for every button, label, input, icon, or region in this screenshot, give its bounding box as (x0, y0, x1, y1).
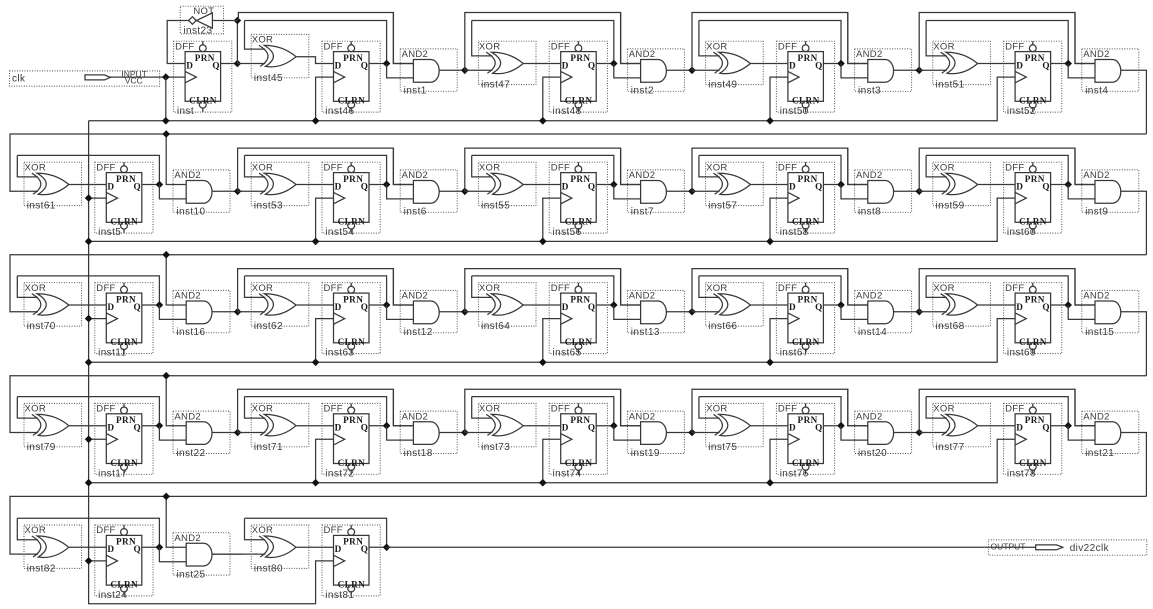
svg-text:inst56: inst56 (553, 227, 582, 238)
junction carry node stage 3 row 1 (688, 67, 696, 75)
svg-text:AND2: AND2 (402, 170, 429, 181)
svg-text:XOR: XOR (706, 283, 728, 294)
svg-text:DFF: DFF (1005, 41, 1024, 52)
wire carry arc inst to AND1 top (238, 13, 413, 64)
junction rail row 2 riser 3 (766, 238, 774, 246)
wire carry junction to XOR lower input stage 2 row 3 (465, 311, 493, 313)
D flip-flop inst58 (776, 162, 834, 238)
svg-text:AND2: AND2 (174, 533, 201, 544)
D flip-flop inst72 (322, 403, 380, 479)
svg-text:DFF: DFF (324, 283, 343, 294)
svg-text:inst66: inst66 (708, 321, 737, 332)
wire feedback arc over inst57 (699, 155, 841, 184)
junction long carry tap row 2 (162, 130, 170, 138)
svg-text:inst46: inst46 (325, 106, 354, 117)
svg-text:inst1: inst1 (404, 86, 427, 97)
AND2 gate inst15 (1082, 290, 1139, 338)
junction Q node inst54 (383, 181, 391, 189)
wire feedback drop to inst70 upper input (17, 276, 38, 298)
AND2 gate inst22 (173, 411, 230, 459)
wire feedback drop to inst68 upper input (926, 276, 947, 298)
junction NOT input node (234, 17, 242, 25)
junction carry node stage 4 row 1 (915, 67, 923, 75)
wire inst4 output to right edge drop (1121, 70, 1147, 134)
wire Q of inst58 to inst8 bottom input (841, 185, 868, 199)
wire Q output of inst54 (369, 184, 387, 186)
svg-text:DFF: DFF (778, 162, 797, 173)
wire Q rise to NOT level (236, 21, 238, 64)
wire carry drop to inst21 top input (1075, 389, 1095, 425)
wire inst25 output to next carry junction (212, 553, 242, 555)
wire Q output of inst50 (823, 63, 841, 65)
svg-text:DFF: DFF (551, 162, 570, 173)
svg-text:XOR: XOR (252, 283, 274, 294)
D flip-flop inst74 (549, 403, 607, 479)
svg-text:DFF: DFF (96, 162, 115, 173)
svg-text:DFF: DFF (175, 41, 194, 52)
wire clock riser stage 2 row 2 (543, 198, 561, 241)
svg-text:XOR: XOR (933, 162, 955, 173)
wire feedback drop to inst62 upper input (245, 276, 266, 298)
svg-text:inst72: inst72 (325, 468, 354, 479)
wire feedback arc over inst62 (245, 276, 387, 305)
wire clock riser stage 1 row 4 (316, 439, 334, 482)
XOR gate inst68 (933, 283, 991, 333)
wire carry junction to XOR lower input stage 4 row 3 (919, 311, 947, 313)
AND2 gate inst4 (1082, 49, 1139, 97)
wire Q output of inst69 (1051, 304, 1069, 306)
D flip-flop inst81 (322, 525, 380, 601)
AND2 gate inst12 (400, 290, 457, 338)
D flip-flop inst56 (549, 162, 607, 238)
D flip-flop inst48 (549, 41, 607, 117)
wire Q of inst72 to inst18 bottom input (387, 426, 414, 440)
svg-text:div22clk: div22clk (1070, 543, 1110, 554)
wire Q of inst63 to inst12 bottom input (387, 305, 414, 319)
wire carry arc over stage 3 row 3 (692, 269, 868, 312)
wire inst59 output to D of inst60 (978, 184, 1016, 186)
wire carry junction to XOR lower input stage 3 row 2 (692, 190, 720, 192)
svg-text:XOR: XOR (25, 162, 47, 173)
junction Q node inst63 (383, 301, 391, 309)
wire feedback drop to inst47 upper input (472, 21, 493, 56)
junction rail row 3 riser 3 (766, 359, 774, 367)
svg-text:inst15: inst15 (1085, 327, 1114, 338)
svg-text:AND2: AND2 (629, 170, 656, 181)
wire Q of inst54 to inst6 bottom input (387, 185, 414, 199)
svg-text:inst25: inst25 (176, 570, 205, 581)
wire inst8 output to next carry junction (894, 190, 924, 192)
wire carry arc over stage 4 row 2 (919, 148, 1095, 191)
junction trunk rail row 3 (85, 359, 93, 367)
wire carry arc over stage 1 row 3 (238, 269, 414, 312)
wire Q output of inst74 (596, 425, 614, 427)
junction rail row 3 riser 1 (312, 359, 320, 367)
wire inst68 output to D of inst69 (978, 304, 1016, 306)
junction carry node stage 3 row 3 (688, 308, 696, 316)
wire carry arc over stage 3 row 4 (692, 389, 868, 432)
svg-text:inst48: inst48 (553, 106, 582, 117)
wire carry junction to XOR lower input stage 1 row 3 (238, 311, 266, 313)
wire carry drop to inst25 top input (166, 496, 186, 547)
XOR gate inst47 (478, 41, 536, 90)
wire inst19 output to next carry junction (666, 432, 696, 434)
wire clock riser stage 2 row 4 (543, 439, 561, 482)
XOR gate inst59 (933, 162, 991, 212)
wire inst49 output to D of inst50 (750, 63, 788, 65)
D flip-flop inst63 (322, 283, 380, 359)
XOR gate inst80 (251, 525, 309, 575)
wire Q output of inst67 (823, 304, 841, 306)
wire carry drop to inst9 top input (1075, 148, 1095, 184)
wire feedback drop to inst49 upper input (699, 21, 720, 56)
svg-text:AND2: AND2 (1083, 170, 1110, 181)
wire feedback drop to inst64 upper input (472, 276, 493, 298)
wire Q output of inst60 (1051, 184, 1069, 186)
svg-text:inst59: inst59 (936, 201, 965, 212)
wire trunk clock branch row 2 (89, 197, 107, 199)
wire carry drop to inst3 top input (848, 13, 868, 64)
svg-text:XOR: XOR (25, 283, 47, 294)
wire carry drop to inst20 top input (848, 389, 868, 425)
wire row 3 carry input from row 2 (10, 255, 1146, 312)
svg-text:inst69: inst69 (1007, 348, 1036, 359)
svg-text:XOR: XOR (706, 404, 728, 415)
junction trunk clock row 5 (85, 557, 93, 565)
svg-text:inst62: inst62 (254, 321, 283, 332)
svg-text:inst63: inst63 (325, 348, 354, 359)
D flip-flop inst76 (776, 403, 834, 479)
wire carry drop to inst18 top input (393, 389, 413, 425)
svg-text:AND2: AND2 (174, 291, 201, 302)
D flip-flop inst (174, 41, 232, 117)
wire clock riser stage 2 row 3 (543, 319, 561, 363)
wire feedback arc over inst64 (472, 276, 614, 305)
svg-text:inst45: inst45 (254, 73, 283, 84)
junction Q node inst69 (1064, 301, 1072, 309)
junction Q node inst48 (610, 60, 618, 68)
wire carry arc over stage 4 row 4 (919, 389, 1095, 432)
junction rail row 2 riser 2 (539, 238, 547, 246)
wire Q output of inst17 (142, 425, 160, 427)
wire feedback drop to inst59 upper input (926, 155, 947, 177)
wire carry drop to inst15 top input (1075, 269, 1095, 305)
svg-text:AND2: AND2 (629, 291, 656, 302)
AND2 gate inst18 (400, 411, 457, 459)
XOR gate inst70 (24, 283, 82, 333)
junction rail row 1 clk tap (162, 117, 170, 125)
svg-text:inst6: inst6 (404, 207, 427, 218)
wire clock riser stage 3 row 1 (770, 77, 788, 121)
svg-text:inst75: inst75 (708, 442, 737, 453)
svg-text:inst3: inst3 (858, 86, 881, 97)
AND2 gate inst10 (173, 170, 230, 218)
svg-text:inst18: inst18 (404, 448, 433, 459)
D flip-flop inst24 (95, 525, 153, 601)
junction Q node inst72 (383, 422, 391, 430)
svg-text:DFF: DFF (324, 41, 343, 52)
wire inst51 output to D of inst52 (978, 63, 1016, 65)
wire Q of inst78 to inst21 bottom input (1068, 426, 1095, 440)
wire inst22 output to next carry junction (212, 432, 242, 434)
AND2 gate inst13 (627, 290, 684, 338)
svg-text:XOR: XOR (252, 162, 274, 173)
svg-text:NOT: NOT (193, 6, 214, 17)
wire Q of inst17 to inst22 bottom input (159, 426, 186, 440)
wire inst73 output to D of inst74 (523, 425, 561, 427)
svg-text:DFF: DFF (1005, 404, 1024, 415)
XOR gate inst73 (478, 403, 536, 452)
wire inst6 output to next carry junction (439, 190, 469, 192)
svg-text:XOR: XOR (25, 404, 47, 415)
wire Q of inst60 to inst9 bottom input (1068, 185, 1095, 199)
wire Q output of inst58 (823, 184, 841, 186)
wire Q of inst65 to inst13 bottom input (614, 305, 641, 319)
wire carry drop to inst16 top input (166, 255, 186, 305)
junction trunk rail row 2 (85, 238, 93, 246)
wire Q output of inst11 (142, 304, 160, 306)
wire inst45 output to D of inst46 (296, 57, 334, 64)
wire carry drop to inst7 top input (621, 148, 641, 184)
svg-text:clk: clk (12, 74, 26, 85)
svg-text:XOR: XOR (706, 162, 728, 173)
wire feedback arc over inst59 (926, 155, 1068, 184)
junction Q node inst5 (156, 181, 164, 189)
svg-text:inst16: inst16 (176, 327, 205, 338)
D flip-flop inst60 (1004, 162, 1062, 238)
svg-text:AND2: AND2 (629, 411, 656, 422)
svg-text:inst2: inst2 (631, 86, 654, 97)
AND2 gate inst3 (855, 49, 912, 97)
XOR gate inst64 (478, 283, 536, 333)
svg-text:inst13: inst13 (631, 327, 660, 338)
svg-text:AND2: AND2 (856, 49, 883, 60)
svg-text:XOR: XOR (252, 35, 274, 46)
wire carry junction to XOR lower input stage 3 row 4 (692, 432, 720, 434)
wire trunk clock branch row 5 (89, 560, 107, 562)
wire clock riser stage 1 row 3 (316, 319, 334, 363)
wire clk drop to clock rail (165, 77, 167, 121)
wire feedback arc over inst77 (926, 397, 1068, 426)
D flip-flop inst78 (1004, 403, 1062, 479)
wire Q of inst52 to inst4 bottom input (1068, 64, 1095, 78)
svg-text:inst51: inst51 (936, 80, 965, 91)
wire inst12 output to next carry junction (439, 311, 469, 313)
wire carry drop to inst12 top input (393, 269, 413, 305)
svg-text:DFF: DFF (551, 404, 570, 415)
svg-text:XOR: XOR (706, 41, 728, 52)
wire feedback drop to inst61 upper input (17, 155, 38, 177)
wire inst20 output to next carry junction (894, 432, 924, 434)
junction carry node stage 2 row 1 (461, 67, 469, 75)
junction Q node inst74 (610, 422, 618, 430)
output pin div22clk (988, 540, 1146, 555)
wire inst57 output to D of inst58 (750, 184, 788, 186)
wire carry junction to XOR lower input stage 1 row 4 (238, 432, 266, 434)
wire feedback arc over inst79 (17, 397, 159, 426)
wire NOT output to D of inst (167, 21, 188, 64)
junction Q node inst65 (610, 301, 618, 309)
D flip-flop inst11 (95, 283, 153, 359)
wire inst82 output to D of inst24 (69, 546, 107, 548)
svg-text:inst5: inst5 (98, 227, 121, 238)
svg-text:AND2: AND2 (174, 411, 201, 422)
AND2 gate inst6 (400, 170, 457, 218)
wire Q of inst76 to inst20 bottom input (841, 426, 868, 440)
svg-text:DFF: DFF (324, 525, 343, 536)
wire feedback drop to inst79 upper input (17, 397, 38, 419)
junction Q node inst46 (383, 60, 391, 68)
svg-text:inst20: inst20 (858, 448, 887, 459)
AND2 gate inst25 (173, 533, 230, 581)
svg-text:inst53: inst53 (254, 201, 283, 212)
junction rail row 1 riser 3 (766, 117, 774, 125)
junction Q node inst78 (1064, 422, 1072, 430)
svg-text:inst60: inst60 (1007, 227, 1036, 238)
wire feedback arc over inst49 (699, 21, 841, 64)
svg-text:inst17: inst17 (98, 468, 127, 479)
wire clock riser stage 1 row 1 (316, 77, 334, 121)
wire inst80 output to D of inst81 (296, 546, 334, 548)
wire Q output of inst5 (142, 184, 160, 186)
wire carry arc over stage 2 row 4 (465, 389, 641, 432)
wire Q output of inst56 (596, 184, 614, 186)
svg-text:inst55: inst55 (481, 201, 510, 212)
wire carry drop to inst19 top input (621, 389, 641, 425)
wire clock riser stage 1 row 2 (316, 198, 334, 241)
wire inst2 output to next carry junction (666, 69, 696, 71)
XOR gate inst49 (706, 41, 764, 90)
svg-text:inst49: inst49 (708, 80, 737, 91)
svg-text:AND2: AND2 (856, 170, 883, 181)
XOR gate inst79 (24, 403, 82, 452)
svg-text:inst65: inst65 (553, 348, 582, 359)
junction Q node inst56 (610, 181, 618, 189)
wire inst70 output to D of inst11 (69, 304, 107, 306)
junction carry node stage 4 row 4 (915, 429, 923, 437)
D flip-flop inst65 (549, 283, 607, 359)
wire Q of inst67 to inst14 bottom input (841, 305, 868, 319)
wire carry junction to XOR lower input stage 2 row 2 (465, 190, 493, 192)
svg-text:inst8: inst8 (858, 207, 881, 218)
junction carry node stage 2 row 2 (461, 188, 469, 196)
wire feedback arc over inst47 (472, 21, 614, 64)
junction Q node inst11 (156, 301, 164, 309)
wire inst64 output to D of inst65 (523, 304, 561, 306)
svg-text:DFF: DFF (324, 404, 343, 415)
wire carry junction to XOR lower input stage 4 row 4 (919, 432, 947, 434)
wire feedback arc over inst73 (472, 397, 614, 426)
D flip-flop inst50 (776, 41, 834, 117)
svg-text:inst22: inst22 (176, 448, 205, 459)
svg-text:inst9: inst9 (1085, 207, 1108, 218)
wire clock riser stage 3 row 4 (770, 439, 788, 482)
junction rail row 1 riser 1 (312, 117, 320, 125)
junction rail row 2 riser 1 (312, 238, 320, 246)
svg-text:XOR: XOR (479, 41, 501, 52)
wire feedback drop to inst53 upper input (245, 155, 266, 177)
svg-text:DFF: DFF (96, 525, 115, 536)
D flip-flop inst46 (322, 41, 380, 117)
junction rail row 4 riser 1 (312, 479, 320, 487)
wire carry drop to inst14 top input (848, 269, 868, 305)
svg-text:AND2: AND2 (856, 291, 883, 302)
wire feedback arc over inst51 (926, 21, 1068, 64)
svg-text:AND2: AND2 (629, 49, 656, 60)
svg-text:inst50: inst50 (780, 106, 809, 117)
wire inst75 output to D of inst76 (750, 425, 788, 427)
wire clock rail row 2 (89, 198, 1016, 241)
wire carry drop to inst1 top input (393, 13, 413, 64)
wire inst9 output to right edge drop (1121, 191, 1147, 254)
svg-text:AND2: AND2 (856, 411, 883, 422)
wire NOT input (212, 20, 237, 22)
XOR gate inst55 (478, 162, 536, 212)
wire feedback arc over inst45 (245, 21, 387, 64)
svg-text:inst52: inst52 (1007, 106, 1036, 117)
svg-text:DFF: DFF (551, 283, 570, 294)
wire Q of inst46 to inst1 bottom input (387, 64, 414, 78)
svg-text:AND2: AND2 (402, 411, 429, 422)
wire clock rail row 3 (89, 319, 1016, 363)
AND2 gate inst9 (1082, 170, 1139, 218)
wire feedback arc over inst70 (17, 276, 159, 305)
svg-text:XOR: XOR (479, 162, 501, 173)
AND2 gate inst14 (855, 290, 912, 338)
wire clock trunk left (89, 121, 334, 604)
wire Q of inst11 to inst16 bottom input (159, 305, 186, 319)
wire Q output of inst63 (369, 304, 387, 306)
wire feedback drop to inst82 upper input (17, 518, 38, 540)
XOR gate inst57 (706, 162, 764, 212)
junction long carry tap row 5 (162, 493, 170, 501)
wire inst21 output to right edge drop (1121, 433, 1147, 497)
svg-text:inst11: inst11 (98, 348, 126, 359)
svg-text:inst82: inst82 (27, 564, 56, 575)
svg-text:XOR: XOR (25, 525, 47, 536)
XOR gate inst82 (24, 525, 82, 575)
wire clock rail row 1 (89, 77, 1016, 121)
wire feedback drop to inst80 upper input (245, 518, 266, 540)
svg-text:AND2: AND2 (1083, 291, 1110, 302)
wire Q of inst69 to inst15 bottom input (1068, 305, 1095, 319)
wire feedback drop to inst45 upper input (245, 21, 266, 50)
svg-text:inst78: inst78 (1007, 468, 1036, 479)
svg-text:inst47: inst47 (481, 80, 510, 91)
wire Q output of inst72 (369, 425, 387, 427)
wire inst55 output to D of inst56 (523, 184, 561, 186)
junction carry node stage 3 row 2 (688, 188, 696, 196)
wire row 4 carry input from row 3 (10, 376, 1146, 433)
svg-text:inst4: inst4 (1085, 86, 1108, 97)
wire inst62 output to D of inst63 (296, 304, 334, 306)
wire clock riser stage 3 row 3 (770, 319, 788, 363)
wire carry drop to inst2 top input (621, 13, 641, 64)
svg-text:inst73: inst73 (481, 442, 510, 453)
wire row 5 carry input from row 4 (10, 496, 1146, 554)
wire carry junction to XOR lower input stage 3 row 3 (692, 311, 720, 313)
junction Q node inst50 (837, 60, 845, 68)
junction carry node stage 3 row 4 (688, 429, 696, 437)
wire inst25 output to inst80 lower input (212, 553, 265, 555)
wire feedback arc over inst82 (17, 518, 159, 547)
wire feedback drop to inst71 upper input (245, 397, 266, 419)
svg-text:DFF: DFF (96, 283, 115, 294)
wire inst77 output to D of inst78 (978, 425, 1016, 427)
wire carry junction to XOR lower input stage 2 row 4 (465, 432, 493, 434)
wire carry drop to inst13 top input (621, 269, 641, 305)
wire trunk clock branch row 4 (89, 438, 107, 440)
